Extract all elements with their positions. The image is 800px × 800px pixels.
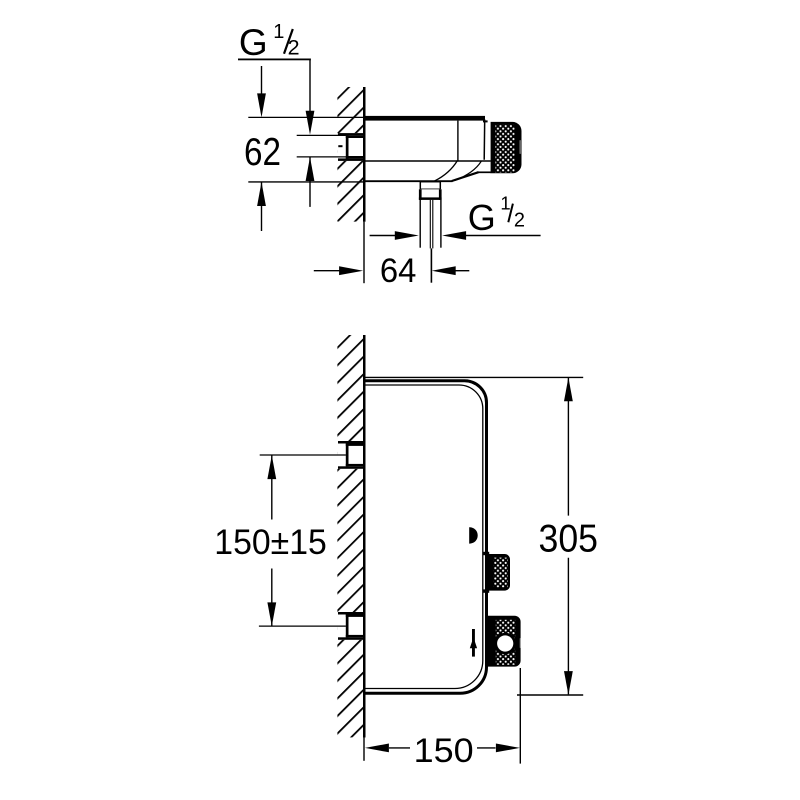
svg-text:150±15: 150±15 [214, 523, 326, 562]
body top extension line [248, 116, 363, 118]
svg-text:62: 62 [244, 131, 281, 174]
inlet extension line top [297, 134, 346, 136]
wall face extension below [363, 737, 364, 760]
outlet nipple box 1 [420, 182, 440, 190]
knob connector stubs [483, 552, 489, 555]
svg-text:2: 2 [288, 36, 300, 60]
dimension 150 (bottom) [519, 668, 521, 764]
hose center line lower [430, 248, 432, 282]
knob rounded edge highlight [519, 140, 521, 154]
top edge right step [483, 120, 488, 122]
shower knob (knurled button) [488, 554, 510, 591]
temperature knob (knurled) [491, 122, 522, 173]
body/cap divider line [457, 121, 459, 161]
wall hatch (top view) [337, 87, 363, 222]
valve front face line [483, 120, 486, 160]
label G 1/2 (top left) [238, 21, 311, 63]
label G 1/2 (hose) [468, 193, 525, 239]
wall face line (top view) [363, 87, 366, 222]
inlet fitting box [346, 136, 364, 159]
svg-text:G: G [239, 22, 268, 63]
wall face line (bottom view) [363, 335, 366, 737]
inlet fitting bottom bar [338, 158, 364, 161]
dimension 64 (wall to hose center) [314, 270, 340, 272]
inlet extension line bottom [297, 156, 346, 158]
dimension G1/2 (hose) arrows [370, 235, 396, 237]
dimension G1/2 leader vertical (x=310) [309, 60, 311, 112]
inlet centerline dash [338, 145, 342, 147]
dimension 305 [364, 376, 583, 378]
mounting bracket 2 [337, 612, 365, 640]
wall hatch (bottom view) [337, 335, 363, 737]
under-knob line [478, 171, 492, 173]
wall face extension line below [363, 222, 364, 284]
svg-text:2: 2 [514, 209, 525, 231]
dimension 62 arrows (x=261.5) [261, 66, 263, 94]
svg-text:150: 150 [414, 732, 474, 770]
lower housing bottom edge [364, 180, 453, 182]
inlet fitting backdrop [337, 133, 365, 161]
water outlet mark (D shape) [469, 527, 478, 543]
shelf body inner line [364, 385, 483, 689]
hose outer left line [419, 200, 421, 248]
flow direction arrow icon [472, 629, 475, 657]
hose inner right line [432, 200, 434, 249]
valve body top edge (thick) [364, 116, 485, 121]
lower housing slant edge [452, 172, 479, 181]
dimension 150±15 [260, 454, 346, 456]
main control knob (with circle) [488, 616, 521, 667]
svg-text:1: 1 [500, 193, 510, 214]
svg-text:1: 1 [273, 21, 284, 43]
cylinder bottom line [364, 160, 491, 162]
svg-text:G: G [468, 197, 496, 238]
wall face line redraw (top) [363, 87, 366, 222]
shelf body outer outline [364, 381, 487, 694]
chamfer curve 2 [455, 161, 481, 180]
outlet nipple box 2 (nut) [419, 189, 442, 200]
mounting bracket 1 [337, 441, 365, 469]
svg-text:305: 305 [539, 518, 599, 561]
wall inlet fitting (G1/2) top bar [338, 133, 364, 136]
hose inner left line [429, 200, 431, 249]
svg-text:64: 64 [380, 252, 417, 290]
hose outer right line [440, 200, 442, 248]
chamfer curve 1 [435, 161, 458, 181]
knob knurl pattern [495, 125, 514, 173]
wall face line redraw (bottom) [363, 335, 366, 737]
body bottom extension line [248, 181, 364, 183]
